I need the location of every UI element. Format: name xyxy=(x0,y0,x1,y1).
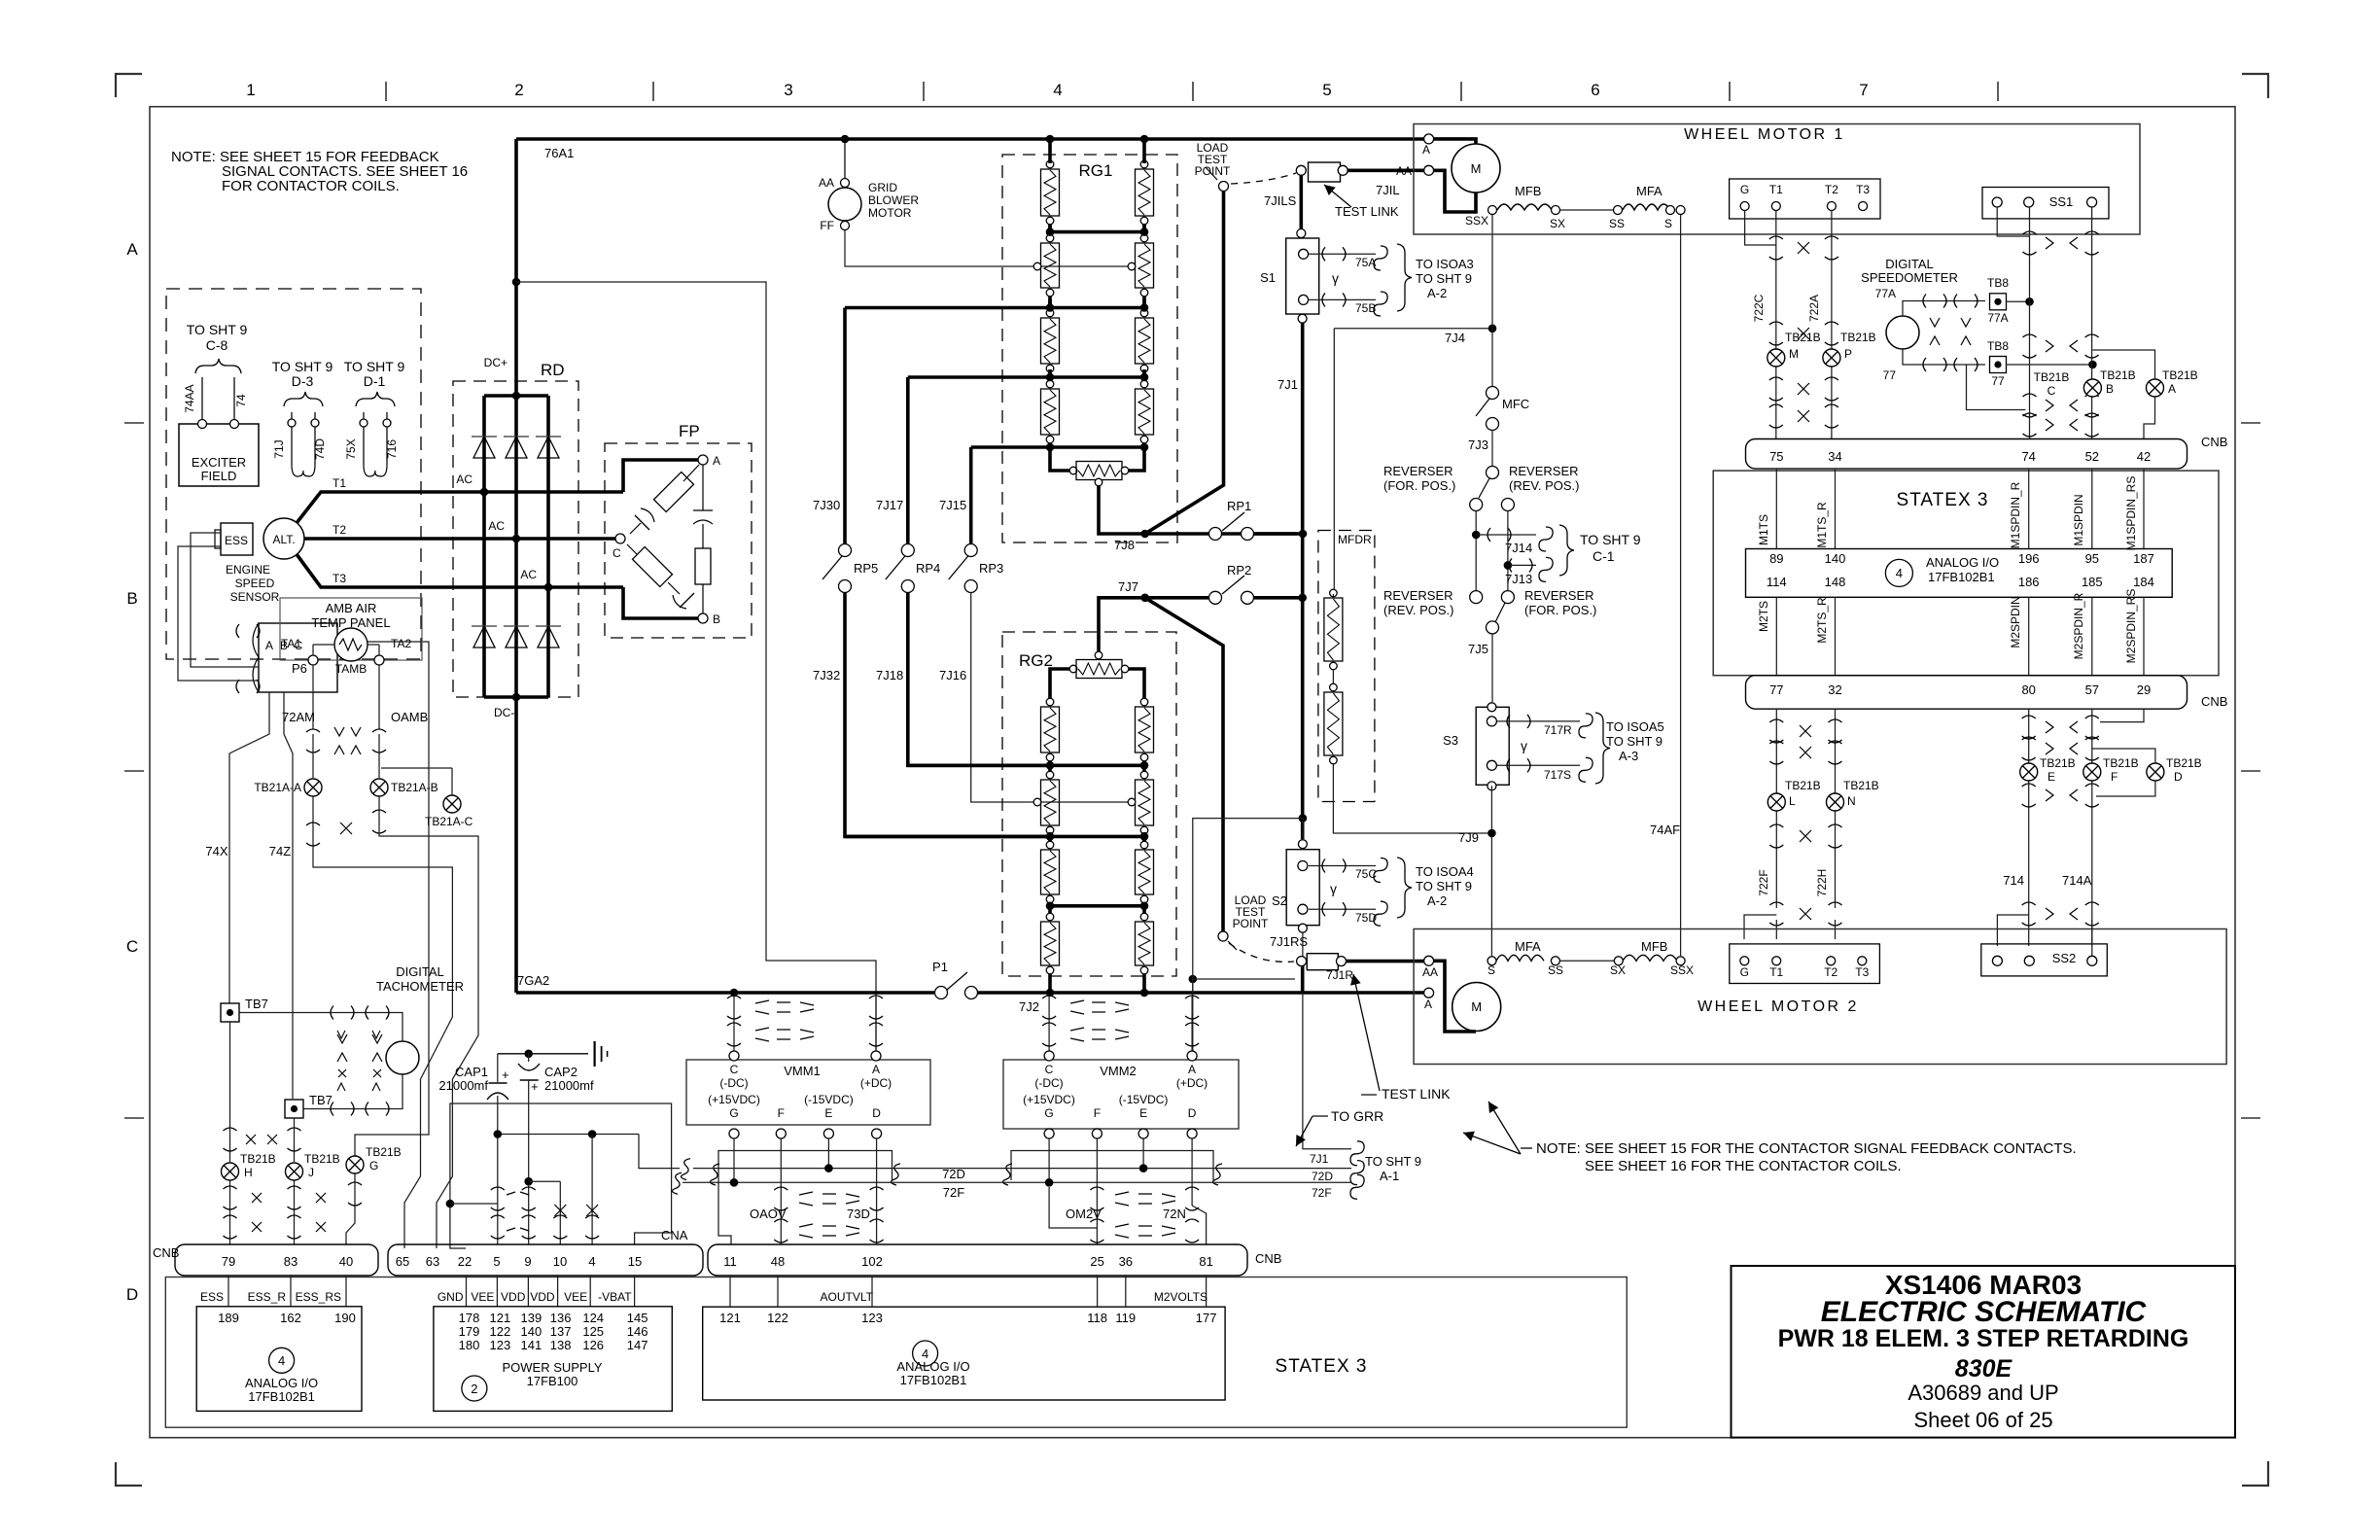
S2 stub 75C xyxy=(1309,865,1376,867)
wire OAMB to CNA pin 63 xyxy=(379,828,478,1248)
FP resistor C-A diagonal xyxy=(653,472,693,511)
wire 7J17 xyxy=(906,377,910,544)
svg-text:125: 125 xyxy=(582,1324,604,1339)
FP resistor C-B diagonal xyxy=(632,546,672,586)
contact col77 bottom xyxy=(1769,902,1783,905)
contact pin10 col xyxy=(553,1215,567,1218)
chevrons col lower2 xyxy=(2046,789,2053,801)
RG1 dashed box xyxy=(1002,155,1177,542)
svg-text:717R: 717R xyxy=(1544,723,1572,737)
svg-text:7J4: 7J4 xyxy=(1445,331,1465,345)
svg-text:52: 52 xyxy=(2085,449,2099,464)
svg-text:A: A xyxy=(872,1063,880,1076)
svg-text:72F: 72F xyxy=(943,1185,964,1200)
svg-text:FOR CONTACTOR COILS.: FOR CONTACTOR COILS. xyxy=(222,178,400,194)
svg-text:T1: T1 xyxy=(332,476,346,490)
lamp TB21B F xyxy=(2083,763,2101,781)
wire 7J7 xyxy=(1099,598,1145,655)
svg-text:T2: T2 xyxy=(332,523,346,537)
svg-text:114: 114 xyxy=(1767,575,1787,589)
wire DC+ vertical xyxy=(514,139,518,396)
VMM2 bottom terminals xyxy=(1044,1129,1054,1138)
FP capacitor A branch xyxy=(702,465,704,510)
wire 72F feed xyxy=(672,1172,682,1194)
shield bracket below VMM1 xyxy=(718,1151,892,1181)
wheel motor 1 box xyxy=(1414,124,2140,235)
svg-text:83: 83 xyxy=(284,1254,297,1269)
svg-text:TB7: TB7 xyxy=(309,1093,332,1107)
wire WM1 G elbow xyxy=(1745,210,1776,245)
svg-text:H: H xyxy=(244,1166,253,1179)
svg-text:T3: T3 xyxy=(1856,183,1870,196)
terminal TA1 xyxy=(308,655,318,665)
svg-text:RD: RD xyxy=(541,361,565,379)
wire M1TS xyxy=(1775,469,1777,549)
VMM2 terminal C xyxy=(1044,1051,1054,1061)
svg-text:72D: 72D xyxy=(1312,1170,1333,1183)
WM1 terminal A xyxy=(1424,134,1434,144)
S3 stub 717R xyxy=(1497,720,1580,722)
svg-text:722H: 722H xyxy=(1815,869,1829,897)
contact 722C lower xyxy=(1769,377,1783,380)
ESS engine speed sensor box xyxy=(221,523,253,555)
dashed harness box left xyxy=(166,289,421,659)
digital tachometer xyxy=(386,1041,419,1074)
wheel motor 2 box xyxy=(1414,929,2226,1065)
FP capacitor C-A xyxy=(635,515,649,530)
svg-text:B: B xyxy=(126,589,137,608)
svg-text:7J2: 7J2 xyxy=(1019,999,1039,1014)
svg-text:OAOV: OAOV xyxy=(750,1207,787,1221)
svg-text:ALT.: ALT. xyxy=(272,533,295,546)
SS1 box xyxy=(1982,188,2109,219)
contact col80 lower xyxy=(2022,784,2036,787)
svg-text:95: 95 xyxy=(2085,551,2099,566)
svg-text:71J: 71J xyxy=(272,439,286,458)
exciter field terminals xyxy=(198,420,207,429)
svg-text:TO ISOA5: TO ISOA5 xyxy=(1606,719,1664,734)
svg-text:TO GRR: TO GRR xyxy=(1331,1108,1383,1124)
svg-text:MFB: MFB xyxy=(1515,184,1541,198)
svg-text:74: 74 xyxy=(2021,449,2035,464)
svg-text:MFC: MFC xyxy=(1502,397,1529,411)
wire T3 to FP B xyxy=(623,587,698,618)
wire S3 to MFA S xyxy=(1490,786,1492,956)
contact H upper xyxy=(224,1128,237,1131)
svg-text:72AM: 72AM xyxy=(282,710,315,724)
RG1 bar after row4 to RP3 xyxy=(971,445,1144,449)
svg-text:136: 136 xyxy=(550,1311,572,1325)
svg-text:72N: 72N xyxy=(1163,1207,1186,1221)
wire vdd rail xyxy=(498,1134,639,1136)
svg-text:SX: SX xyxy=(1550,217,1565,230)
x-mark 722 mid xyxy=(1798,328,1809,339)
wire J to pin83 xyxy=(294,1180,296,1244)
svg-text:186: 186 xyxy=(2018,575,2040,589)
bus 7GA2 xyxy=(516,991,941,995)
wire col77 to WM2 G xyxy=(1744,915,1776,939)
junction dot x1227 on bus xyxy=(1189,975,1198,984)
svg-text:A-2: A-2 xyxy=(1427,286,1447,300)
svg-text:(-15VDC): (-15VDC) xyxy=(1119,1093,1169,1106)
analog io box 2 xyxy=(703,1307,1225,1400)
svg-text:7J13: 7J13 xyxy=(1505,572,1532,586)
wire col32 xyxy=(1835,709,1837,908)
svg-text:TO ISOA4: TO ISOA4 xyxy=(1416,864,1474,879)
svg-text:722A: 722A xyxy=(1807,295,1821,322)
svg-text:TO SHT 9: TO SHT 9 xyxy=(1416,271,1472,286)
svg-text:77: 77 xyxy=(1883,368,1897,382)
contact col32 bottom xyxy=(1829,902,1842,905)
x-mark col bottom xyxy=(1800,908,1811,920)
connector bundle 7J2 to VMM2 xyxy=(1048,996,1050,1051)
stub 123 xyxy=(871,1276,873,1307)
svg-text:6: 6 xyxy=(1591,81,1599,99)
wire RG2 stub row2 xyxy=(1048,762,1052,771)
wire to load test point 1 xyxy=(1145,192,1224,535)
svg-text:M2TS_R: M2TS_R xyxy=(1815,597,1829,644)
junction VMM1 G to 72F xyxy=(733,1138,735,1182)
svg-text:177: 177 xyxy=(1196,1311,1217,1325)
FP terminal A xyxy=(698,455,708,465)
terminal TB7 lower xyxy=(285,1100,303,1118)
contact reverser forward xyxy=(1487,467,1499,479)
svg-text:C: C xyxy=(2047,384,2056,398)
svg-text:MFDR: MFDR xyxy=(1338,533,1372,546)
svg-text:184: 184 xyxy=(2133,575,2154,589)
svg-text:36: 36 xyxy=(1119,1254,1133,1269)
svg-text:TO SHT 9: TO SHT 9 xyxy=(1365,1154,1421,1169)
wire RP1 to 7J1 xyxy=(1254,532,1303,536)
wire P6 C to lamp G column xyxy=(337,642,429,1156)
svg-text:TB21B: TB21B xyxy=(1840,331,1876,344)
stub 177 xyxy=(1206,1276,1207,1307)
x-mark 722 upper xyxy=(1798,242,1809,254)
wire MFA S to 74AF xyxy=(1676,206,1685,215)
contact 722A upper xyxy=(1825,236,1838,239)
contact J upper xyxy=(288,1128,301,1131)
svg-text:ESS_RS: ESS_RS xyxy=(296,1290,341,1304)
stub 7J14 xyxy=(1476,534,1536,536)
contact MFC xyxy=(1487,387,1499,400)
connector P6 box xyxy=(259,623,337,692)
wire 77 branch to col74 xyxy=(1967,365,2026,410)
alternator ALT circle xyxy=(263,518,304,559)
VMM1 box xyxy=(686,1060,930,1125)
wire 7J5 xyxy=(1487,621,1499,634)
x-marks 722 lower xyxy=(1798,383,1809,395)
svg-text:TB21B: TB21B xyxy=(2040,756,2076,770)
stub ESS_RS xyxy=(345,1276,347,1307)
svg-text:137: 137 xyxy=(550,1324,572,1339)
contact col80 upper xyxy=(2022,716,2036,718)
svg-text:Sheet 06 of 25: Sheet 06 of 25 xyxy=(1913,1408,2052,1432)
brace S3 xyxy=(1595,713,1610,784)
contact 72AM upper xyxy=(306,729,320,732)
svg-text:42: 42 xyxy=(2137,449,2151,464)
svg-text:(FOR. POS.): (FOR. POS.) xyxy=(1524,603,1596,617)
wire bus to grid blower xyxy=(844,139,846,178)
wire 74Z column lower xyxy=(294,1118,296,1162)
svg-text:77A: 77A xyxy=(1875,287,1896,300)
svg-text:MFA: MFA xyxy=(1636,184,1662,198)
svg-text:F: F xyxy=(1094,1106,1101,1120)
svg-text:A: A xyxy=(2168,382,2176,396)
contact col32 upper xyxy=(1829,719,1842,722)
svg-text:RP5: RP5 xyxy=(854,561,878,576)
contact col57 upper xyxy=(2085,716,2099,718)
svg-text:2: 2 xyxy=(471,1382,477,1396)
junction 7J1/RP2 xyxy=(1298,594,1307,603)
test link 7J1R xyxy=(1302,932,1304,962)
resistor MFDR 1 xyxy=(1330,589,1338,597)
junction dots RG1 top bus xyxy=(1046,135,1055,144)
svg-text:B: B xyxy=(2106,382,2114,396)
RG2 bar after row2 xyxy=(845,835,1144,839)
resistor RG2 row4 right xyxy=(1140,913,1148,921)
junction T3-RD xyxy=(544,583,553,592)
svg-text:7J32: 7J32 xyxy=(813,668,840,682)
svg-text:CAP2: CAP2 xyxy=(544,1065,577,1079)
coil MFB WM2 xyxy=(1614,957,1623,965)
svg-text:124: 124 xyxy=(582,1311,604,1325)
junction VMM2 E to 72D xyxy=(1142,1138,1144,1169)
title block box xyxy=(1732,1266,2236,1438)
resistor RG1 row2 left xyxy=(1046,234,1054,242)
dashes between cap cols xyxy=(507,1192,529,1231)
svg-text:5: 5 xyxy=(1322,81,1331,99)
svg-text:POINT: POINT xyxy=(1233,917,1269,930)
stub 122 xyxy=(777,1276,779,1307)
svg-text:M2SPDIN_RS: M2SPDIN_RS xyxy=(2124,589,2138,664)
tach contact column marks xyxy=(337,1034,347,1043)
v-marks speedo xyxy=(1930,318,1940,327)
lamp TB21A-B xyxy=(370,779,388,796)
lamp TB21A-A xyxy=(304,779,322,796)
svg-text:AA: AA xyxy=(819,176,834,190)
svg-text:TB21B: TB21B xyxy=(1785,331,1821,344)
svg-text:D: D xyxy=(2174,770,2183,784)
lamp TB21B G xyxy=(346,1156,364,1173)
svg-text:G: G xyxy=(1044,1106,1053,1120)
junction GND rail xyxy=(446,1200,455,1208)
wire col80 to SS2 xyxy=(1997,915,2028,946)
wire 71J xyxy=(291,412,293,465)
wire WM2 AA to M xyxy=(1434,961,1476,1032)
x-marks under lamps xyxy=(340,822,352,834)
svg-text:2: 2 xyxy=(514,81,523,99)
svg-text:TB21B: TB21B xyxy=(1785,779,1821,792)
wire 7J4 to MFDR xyxy=(1333,329,1335,589)
svg-text:72D: 72D xyxy=(942,1167,965,1181)
svg-text:(REV. POS.): (REV. POS.) xyxy=(1383,603,1453,617)
resistor RG2 row2 right xyxy=(1140,771,1148,779)
wire RG2 stub row3 xyxy=(1048,832,1052,841)
svg-text:SENSOR: SENSOR xyxy=(230,590,280,604)
S2 stub 75D xyxy=(1309,908,1376,910)
lamp TB21B B xyxy=(2083,379,2101,397)
chevrons col bottom2 xyxy=(2046,908,2053,920)
FP resistor A-B vertical xyxy=(695,548,711,584)
svg-text:A-2: A-2 xyxy=(1427,893,1447,908)
CNB bar bottom statex xyxy=(1746,676,2187,710)
svg-text:P1: P1 xyxy=(932,960,948,974)
svg-text:140: 140 xyxy=(521,1324,542,1339)
svg-text:77: 77 xyxy=(1991,374,2005,388)
wire RG1 stub row1 xyxy=(1048,160,1052,163)
svg-text:(FOR. POS.): (FOR. POS.) xyxy=(1383,478,1455,493)
switch S3 box xyxy=(1476,707,1509,785)
wire 72D line xyxy=(693,1168,1351,1170)
svg-text:NOTE: SEE SHEET 15 FOR THE CON: NOTE: SEE SHEET 15 FOR THE CONTACTOR SIG… xyxy=(1536,1140,2077,1157)
wire TB7 to tach lower xyxy=(303,1074,402,1109)
svg-text:D-3: D-3 xyxy=(292,373,314,389)
statex3 container box xyxy=(165,1277,1627,1428)
stub ESS_R xyxy=(290,1276,292,1307)
svg-text:GND: GND xyxy=(437,1290,464,1304)
x-mark col lower xyxy=(1800,830,1811,842)
wire M1SPDIN_R xyxy=(2028,469,2030,549)
svg-text:G: G xyxy=(369,1159,378,1172)
loop under 71J/74D xyxy=(292,465,315,476)
resistor RG1 row3 left xyxy=(1046,309,1054,317)
junction VMM1 C on bus xyxy=(730,989,739,997)
svg-text:3: 3 xyxy=(784,81,792,99)
contact col52 top xyxy=(2085,231,2099,234)
svg-text:147: 147 xyxy=(627,1338,648,1352)
circle 4 analog io 2 xyxy=(913,1341,938,1366)
bus 76A1 top xyxy=(516,137,1429,141)
lamp TB21B D xyxy=(2147,763,2164,781)
svg-text:ESS: ESS xyxy=(200,1290,224,1304)
svg-text:(+DC): (+DC) xyxy=(860,1076,892,1090)
drawing border xyxy=(150,107,2235,1438)
svg-text:DIGITAL: DIGITAL xyxy=(396,964,444,979)
wire T3 alternator to RD xyxy=(297,554,623,587)
contact col77 lower xyxy=(1769,824,1783,827)
wire col80 xyxy=(2028,709,2030,946)
svg-text:TB21B: TB21B xyxy=(2166,756,2202,770)
motor M wheel motor 2 xyxy=(1452,983,1501,1032)
contact col57 lower xyxy=(2085,784,2099,787)
svg-text:GRID: GRID xyxy=(868,181,897,194)
svg-text:T2: T2 xyxy=(1825,183,1838,196)
svg-text:T3: T3 xyxy=(1855,965,1869,979)
svg-text:7J1R: 7J1R xyxy=(1326,968,1353,982)
svg-text:A: A xyxy=(265,639,273,652)
svg-text:BLOWER: BLOWER xyxy=(868,193,919,207)
FP terminal C xyxy=(615,534,625,543)
svg-text:21000mf: 21000mf xyxy=(438,1078,488,1093)
svg-text:21000mf: 21000mf xyxy=(544,1078,594,1093)
RG1 bar after row3 to RP4 xyxy=(908,375,1144,379)
loop under 75X/716 xyxy=(364,465,387,476)
svg-text:C: C xyxy=(1045,1063,1054,1076)
svg-text:(-DC): (-DC) xyxy=(719,1076,748,1090)
power supply box xyxy=(434,1307,672,1412)
wire RP2 to 7J1 xyxy=(1254,596,1303,600)
digital speedometer xyxy=(1886,316,1919,349)
svg-text:7: 7 xyxy=(1859,81,1868,99)
svg-text:RG1: RG1 xyxy=(1079,161,1113,180)
wire RG2 stub row4 xyxy=(1048,904,1052,913)
brace S2 xyxy=(1397,857,1412,918)
brace over 71J/74D xyxy=(284,392,323,406)
wire RG2 horiz res to columns xyxy=(1050,669,1069,697)
RG2 row2 side taps xyxy=(1033,798,1041,806)
svg-text:OAMB: OAMB xyxy=(391,710,428,724)
RD top bus xyxy=(484,394,548,398)
svg-text:196: 196 xyxy=(2018,551,2040,566)
wire to load test point 2 xyxy=(1145,598,1223,931)
svg-text:RP4: RP4 xyxy=(916,561,940,576)
svg-text:VMM2: VMM2 xyxy=(1100,1064,1137,1078)
svg-text:80: 80 xyxy=(2021,682,2035,697)
svg-text:A-3: A-3 xyxy=(1619,749,1638,763)
svg-text:TB21B: TB21B xyxy=(2034,370,2070,384)
wire 74AA xyxy=(201,377,203,419)
svg-text:B: B xyxy=(713,612,720,626)
lamp TB21B E xyxy=(2020,763,2038,781)
svg-text:102: 102 xyxy=(861,1254,883,1269)
motor M wheel motor 1 xyxy=(1452,144,1500,192)
wire RG2 stub row1 xyxy=(1048,697,1052,698)
circle 4 analog io 1 xyxy=(269,1347,295,1373)
resistor RG1 row2 right xyxy=(1140,234,1148,242)
brace over 74AA/74 xyxy=(195,359,241,373)
svg-text:A-1: A-1 xyxy=(1380,1169,1399,1183)
wire 7J1 elbow to VMM2 A xyxy=(1193,819,1303,1056)
svg-text:40: 40 xyxy=(339,1254,353,1269)
svg-text:S1: S1 xyxy=(1260,270,1276,285)
svg-text:190: 190 xyxy=(334,1311,356,1325)
contact OM2V xyxy=(1090,1187,1103,1190)
svg-text:185: 185 xyxy=(2082,575,2103,589)
resistor RG2 row3 left xyxy=(1046,841,1054,849)
wire 7J1 to S2 xyxy=(1302,819,1304,839)
chevrons col74/52 xyxy=(2046,237,2053,249)
svg-text:ENGINE: ENGINE xyxy=(226,563,270,577)
svg-text:9: 9 xyxy=(524,1254,531,1269)
svg-text:81: 81 xyxy=(1199,1254,1212,1269)
svg-text:C-1: C-1 xyxy=(1592,548,1615,564)
wire VMM1 F column xyxy=(780,1138,782,1244)
lamp TB21B M xyxy=(1767,349,1785,367)
brace TO SHT 9 C-1 xyxy=(1559,525,1574,576)
S1 stub 75A xyxy=(1309,253,1376,255)
wire M1TS_R xyxy=(1835,469,1837,549)
svg-text:34: 34 xyxy=(1828,449,1841,464)
wire pin15 loop xyxy=(635,1164,672,1244)
wire 7J1L to S1 xyxy=(1300,175,1304,233)
svg-text:SPEEDOMETER: SPEEDOMETER xyxy=(1861,270,1958,285)
svg-text:74AA: 74AA xyxy=(183,384,196,412)
svg-text:WHEEL MOTOR 1: WHEEL MOTOR 1 xyxy=(1684,126,1845,143)
svg-text:22: 22 xyxy=(458,1254,472,1269)
WM2 G T1 T2 T3 box xyxy=(1730,944,1880,984)
resistor RG2 top horizontal xyxy=(1095,651,1102,659)
svg-text:γ: γ xyxy=(1330,881,1337,896)
dash marks OM2V-72N xyxy=(1115,1192,1175,1206)
svg-text:74D: 74D xyxy=(313,438,327,460)
contact RP2 xyxy=(1145,596,1215,600)
contact col57 bottom xyxy=(2085,902,2099,905)
svg-text:TO SHT 9: TO SHT 9 xyxy=(344,359,405,374)
svg-text:25: 25 xyxy=(1090,1254,1103,1269)
RD dashed box xyxy=(453,381,578,697)
svg-text:-VBAT: -VBAT xyxy=(598,1290,632,1304)
svg-text:29: 29 xyxy=(2137,682,2151,697)
